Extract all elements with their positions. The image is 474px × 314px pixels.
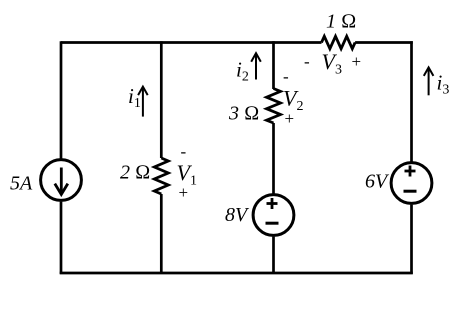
wire branch 3 middle xyxy=(272,123,275,194)
wire branch 3 lower xyxy=(272,237,275,274)
wire branch 3 upper xyxy=(272,41,275,89)
resistor 2 Ω (vertical) xyxy=(154,158,168,194)
wire top rail right segment xyxy=(355,41,413,44)
svg-text:+: + xyxy=(352,52,362,71)
current arrow i1 xyxy=(138,87,148,117)
wire left branch upper xyxy=(60,41,63,159)
current source I1 5A circle xyxy=(41,160,82,201)
svg-text:i1: i1 xyxy=(128,84,141,111)
svg-text:5A: 5A xyxy=(10,173,33,195)
current arrow i2 xyxy=(251,53,261,79)
6V plus sign xyxy=(405,166,416,177)
8V minus sign xyxy=(266,222,279,225)
wire bottom rail xyxy=(60,272,413,275)
wire right branch lower xyxy=(410,205,413,274)
6V minus sign xyxy=(404,190,417,193)
svg-text:i2: i2 xyxy=(236,58,249,85)
svg-text:+: + xyxy=(285,109,295,128)
resistor 3 Ω (vertical) xyxy=(267,89,281,124)
wire right branch upper xyxy=(410,41,413,162)
voltage source 6V circle xyxy=(391,163,432,204)
8V plus sign xyxy=(267,198,278,209)
svg-text:+: + xyxy=(179,183,189,202)
current source arrow (down) xyxy=(55,168,68,195)
voltage source 8V circle xyxy=(253,195,294,236)
svg-text:-: - xyxy=(283,67,289,86)
svg-text:3 Ω: 3 Ω xyxy=(228,103,259,125)
wire branch 2 lower xyxy=(160,194,163,274)
current arrow i3 xyxy=(424,67,434,95)
svg-text:-: - xyxy=(304,52,310,71)
svg-text:8V: 8V xyxy=(225,204,250,226)
svg-text:6V: 6V xyxy=(365,171,390,193)
svg-text:2 Ω: 2 Ω xyxy=(120,162,150,184)
svg-text:i3: i3 xyxy=(437,71,450,98)
wire top rail left segment xyxy=(61,41,322,44)
svg-text:1 Ω: 1 Ω xyxy=(326,11,356,33)
svg-text:V3: V3 xyxy=(322,49,342,78)
svg-text:-: - xyxy=(181,142,187,161)
wire branch 2 upper xyxy=(160,41,163,158)
resistor 1 Ω (horizontal, top rail) xyxy=(322,36,356,48)
wire left branch lower xyxy=(60,202,63,274)
